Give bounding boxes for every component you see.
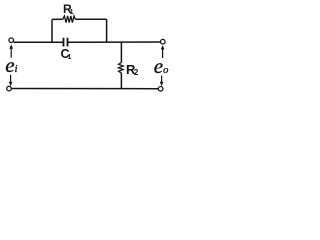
- wire: ei top arrow stub: [10, 47, 12, 57]
- arrowhead down (eo bottom): [160, 82, 164, 86]
- wire: loop top-left segment: [52, 18, 63, 20]
- label R2: [126, 63, 138, 78]
- terminal circle top-right: [161, 39, 166, 44]
- wire: ei bottom arrow stub: [10, 75, 12, 84]
- wire: eo top arrow stub: [162, 48, 164, 58]
- terminal circle bottom-right: [158, 87, 163, 92]
- wire: input top lead: [14, 41, 64, 43]
- wire: loop top-right segment: [75, 18, 106, 20]
- wire: eo bottom arrow stub: [161, 76, 163, 84]
- wire: R2 bottom lead: [120, 73, 122, 88]
- capacitor C1 left plate: [63, 38, 65, 47]
- capacitor C1 right plate: [67, 38, 69, 47]
- resistor R1 zigzag: [63, 16, 76, 23]
- terminal circle top-left: [9, 38, 14, 43]
- wire: main wire from C1 to right terminal: [68, 41, 161, 43]
- arrowhead up (ei top): [9, 44, 13, 49]
- label C1: [61, 48, 72, 61]
- resistor R2 zigzag: [119, 63, 124, 74]
- wire: R2 top lead: [120, 42, 122, 62]
- wire: bottom return wire: [12, 88, 159, 90]
- label eo: [154, 56, 169, 77]
- label R1: [63, 3, 74, 16]
- wire: R1 bypass loop right vertical: [106, 19, 108, 42]
- wire: R1 bypass loop left vertical: [51, 19, 53, 42]
- arrowhead down (ei bottom): [9, 82, 13, 86]
- terminal circle bottom-left: [7, 86, 12, 91]
- arrowhead up (eo top): [161, 45, 165, 50]
- label ei: [5, 55, 17, 76]
